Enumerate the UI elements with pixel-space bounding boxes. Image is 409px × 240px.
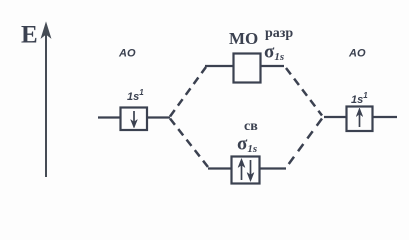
right AO level line left segment — [324, 116, 346, 118]
electron arrow down in left AO box — [131, 111, 138, 128]
antibonding MO level line right segment — [261, 65, 284, 67]
bonding MO level line right segment — [260, 167, 286, 169]
left AO box — [121, 108, 148, 131]
dashed line right AO to bonding MO — [288, 119, 322, 166]
right AO box — [347, 107, 373, 132]
electron arrow up in bonding MO box (left) — [238, 159, 245, 181]
energy axis arrow — [42, 23, 51, 177]
left AO level line left segment — [98, 116, 120, 118]
svg-text:MO: MO — [229, 29, 258, 48]
dashed line left AO to antibonding MO — [170, 67, 206, 117]
svg-text:σ1s: σ1s — [237, 134, 257, 156]
antibonding MO box — [234, 54, 261, 83]
bonding MO level line left segment — [208, 167, 231, 169]
svg-text:св: св — [244, 119, 258, 134]
svg-text:1s1: 1s1 — [351, 91, 368, 106]
antibonding MO level line left segment — [205, 65, 233, 67]
svg-text:1s1: 1s1 — [127, 88, 144, 103]
svg-text:AO: AO — [118, 48, 136, 60]
bonding MO box — [232, 157, 260, 184]
right AO level line right segment — [373, 116, 397, 118]
svg-text:разр: разр — [265, 26, 293, 41]
dashed line right AO to antibonding MO — [286, 68, 322, 116]
electron arrow up in right AO box — [356, 108, 363, 127]
electron arrow down in bonding MO box (right) — [247, 160, 254, 182]
svg-text:σ1s: σ1s — [264, 42, 284, 64]
left AO level line right segment — [147, 116, 170, 118]
svg-text:AO: AO — [348, 48, 366, 60]
dashed line left AO to bonding MO — [170, 119, 208, 168]
svg-text:E: E — [21, 22, 38, 49]
